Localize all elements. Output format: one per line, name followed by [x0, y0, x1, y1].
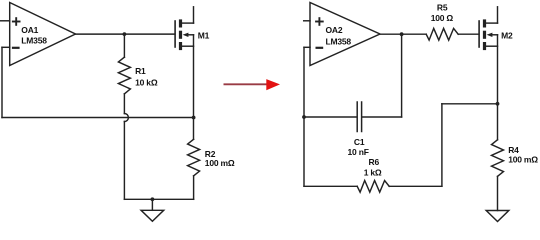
- node ground rail junction: [151, 197, 155, 201]
- wire M2 source horizontal: [485, 45, 498, 47]
- wire bottom rail to R6: [304, 185, 357, 187]
- wire R4 bottom lead: [497, 176, 499, 210]
- wire feedback right vertical lower: [303, 117, 305, 186]
- op-amp U1 OA1 triangle: [10, 3, 76, 66]
- wire M1 body shaft: [188, 34, 194, 36]
- wire M2 source column: [497, 35, 499, 140]
- node M2 source junction: [496, 102, 500, 106]
- svg-text:10 kΩ: 10 kΩ: [135, 77, 158, 87]
- wire OA1 inverting input stub: [2, 46, 10, 48]
- svg-text:LM358: LM358: [326, 36, 352, 46]
- svg-text:M1: M1: [198, 30, 210, 40]
- wire right riser: [441, 104, 443, 187]
- svg-text:LM358: LM358: [21, 36, 47, 46]
- svg-text:M2: M2: [501, 31, 513, 41]
- ground left: [141, 210, 164, 221]
- svg-text:R5: R5: [437, 2, 448, 12]
- wire feedback right vertical upper: [303, 47, 305, 117]
- wire feedback left vertical: [1, 47, 3, 117]
- svg-text:1 kΩ: 1 kΩ: [364, 167, 382, 177]
- node output C1 junction: [400, 32, 404, 36]
- svg-text:100 mΩ: 100 mΩ: [508, 155, 538, 165]
- capacitor C1: [357, 102, 361, 132]
- wire M1 drain stub up: [193, 7, 195, 23]
- op-amp OA2 minus input symbol: [316, 47, 324, 49]
- wire R5 to M2 gate: [458, 33, 479, 35]
- op-amp OA1 minus input symbol: [12, 47, 20, 49]
- wire M1 drain horizontal: [181, 22, 194, 24]
- svg-text:C1: C1: [354, 137, 365, 147]
- wire OA1 noninverting input: [0, 20, 10, 22]
- wire OA2 inverting input stub: [304, 46, 310, 48]
- node feedback source junction: [192, 116, 196, 120]
- wire OA2 output: [380, 33, 426, 35]
- wire M1 source horizontal: [181, 45, 194, 47]
- svg-text:10 nF: 10 nF: [348, 147, 369, 157]
- wire ground stub: [151, 199, 153, 210]
- wire R1 lead to ground rail: [123, 122, 125, 200]
- svg-text:100 mΩ: 100 mΩ: [205, 158, 235, 168]
- transistor Q2 M2 gate bar: [478, 21, 480, 47]
- wire R2 bottom lead: [193, 176, 195, 199]
- wire M2 drain stub up: [497, 7, 499, 23]
- node output R1 junction: [123, 32, 127, 36]
- op-amp U2 OA2 triangle: [310, 3, 380, 66]
- resistor R4: [492, 140, 504, 177]
- transistor M2 channel bars: [483, 19, 486, 50]
- wire hop over feedback: [124, 114, 128, 122]
- wire OA1 output to M1 gate: [76, 33, 175, 35]
- op-amp OA2 plus input symbol: [315, 17, 324, 26]
- ground right: [486, 211, 509, 222]
- wire M2 drain horizontal: [485, 22, 498, 24]
- wire ground rail: [124, 198, 193, 200]
- wire C1 right: [362, 116, 401, 118]
- arrow between circuits: [224, 79, 281, 90]
- svg-text:OA2: OA2: [326, 25, 343, 35]
- wire R6 to right riser: [389, 185, 442, 187]
- svg-text:R4: R4: [508, 145, 519, 155]
- transistor M2 body arrow: [487, 33, 493, 37]
- resistor R6: [357, 181, 389, 193]
- transistor Q1 M1 gate bar: [174, 21, 176, 47]
- svg-text:R6: R6: [369, 157, 380, 167]
- transistor M1 body arrow: [183, 33, 189, 37]
- wire C1 left: [304, 116, 357, 118]
- op-amp OA1 plus input symbol: [12, 17, 21, 26]
- svg-text:OA1: OA1: [21, 25, 38, 35]
- resistor R1: [118, 57, 130, 94]
- wire M1 source column: [193, 35, 195, 140]
- wire R1 top lead: [123, 34, 125, 57]
- wire R1 bottom lead above hop: [123, 94, 125, 114]
- wire riser to source node: [442, 103, 498, 105]
- wire C1 to output vertical: [401, 34, 403, 117]
- wire OA2 noninverting input stub: [304, 20, 310, 22]
- svg-text:100 Ω: 100 Ω: [431, 13, 454, 23]
- wire feedback horizontal to source node: [2, 117, 194, 119]
- transistor M1 channel bars: [179, 19, 182, 50]
- resistor R5: [426, 28, 458, 40]
- svg-text:R1: R1: [135, 66, 146, 76]
- node C1 feedback junction: [302, 115, 306, 119]
- resistor R2: [188, 139, 200, 176]
- wire M2 body shaft: [492, 34, 498, 36]
